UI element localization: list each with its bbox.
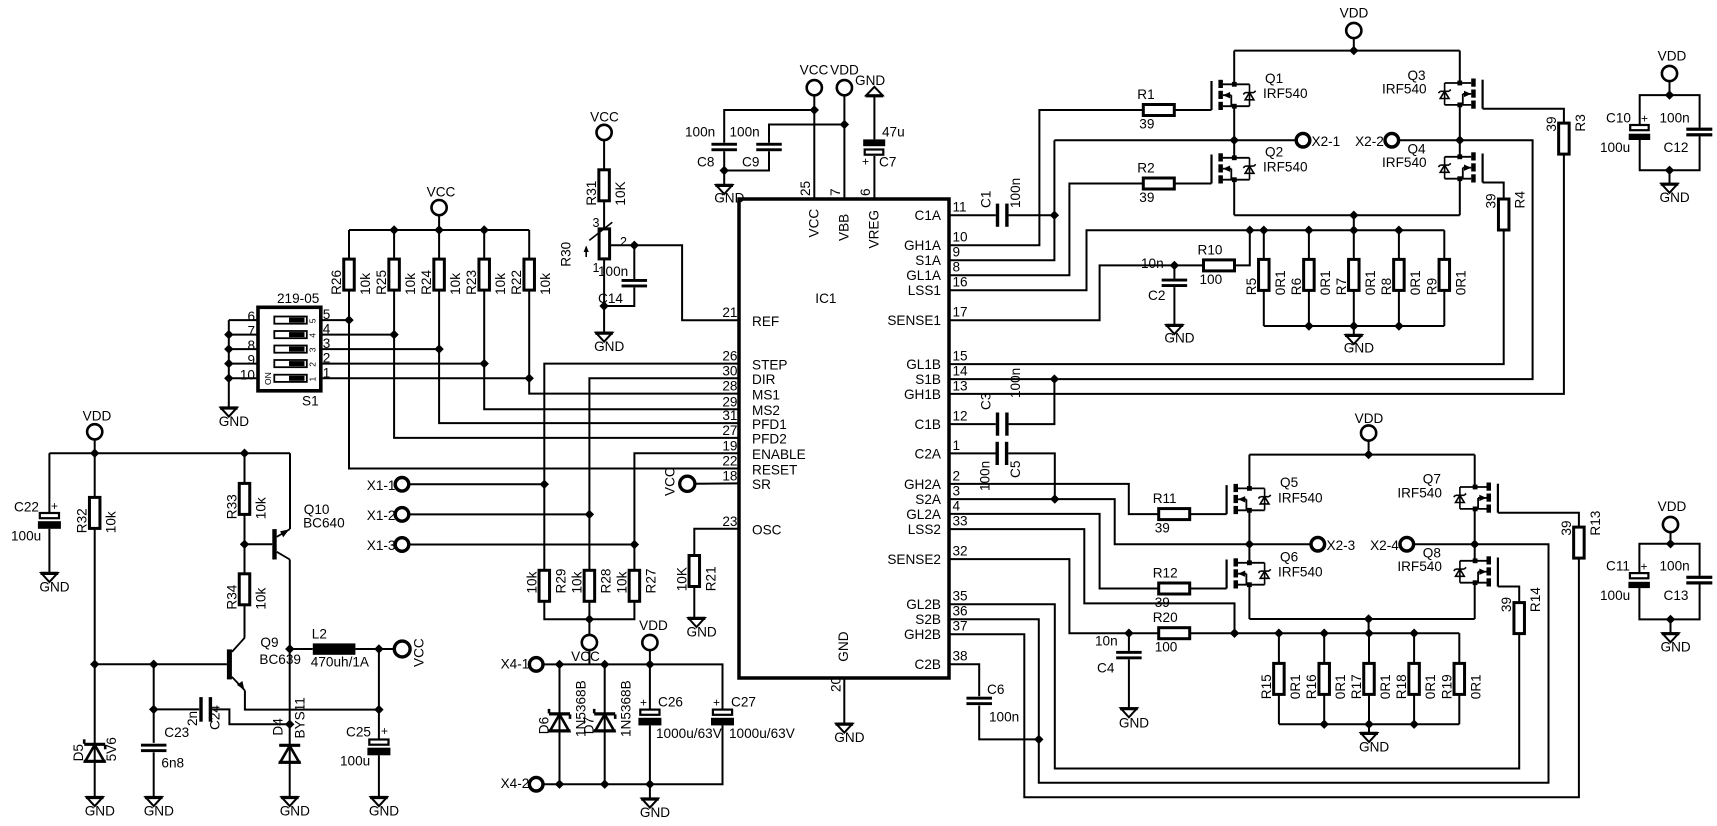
svg-text:GND: GND bbox=[1661, 639, 1691, 654]
svg-text:X1-2: X1-2 bbox=[367, 508, 396, 523]
svg-text:R31: R31 bbox=[584, 181, 599, 206]
svg-text:VDD: VDD bbox=[1340, 6, 1369, 21]
wire Q5 Q6 trunk bbox=[1248, 455, 1250, 489]
resistor R34 10k bbox=[239, 574, 250, 605]
resistor R16 0R1 bbox=[1319, 663, 1330, 694]
svg-text:R33: R33 bbox=[225, 494, 240, 519]
svg-text:1: 1 bbox=[308, 377, 318, 382]
svg-text:R23: R23 bbox=[464, 270, 479, 295]
capacitor C7 47u electrolytic bbox=[862, 125, 905, 170]
svg-text:GL2B: GL2B bbox=[906, 597, 941, 612]
svg-text:C1B: C1B bbox=[915, 417, 941, 432]
svg-text:GL2A: GL2A bbox=[906, 507, 942, 522]
svg-text:X4-1: X4-1 bbox=[501, 656, 530, 671]
IC1 right pin names and numbers bbox=[887, 200, 968, 673]
wire S1B to X2-2 riser bbox=[949, 140, 1533, 384]
resistor R18 0R1 bbox=[1409, 663, 1420, 694]
svg-text:10K: 10K bbox=[613, 181, 628, 205]
wire S1 pin2 R23 to MS2 bbox=[321, 359, 739, 409]
wire Q9 emitter to cap row bbox=[245, 691, 379, 710]
svg-text:+: + bbox=[381, 724, 388, 738]
svg-text:R26: R26 bbox=[329, 270, 344, 295]
ground GND below R30 bbox=[596, 333, 612, 342]
wire GH2A to R11 to Q5 gate bbox=[949, 484, 1159, 514]
wire sense bottom rail A bbox=[1264, 321, 1445, 335]
wire C9 top to VDD rail bbox=[769, 125, 844, 143]
ground GND below C26 bbox=[642, 799, 658, 808]
resistor R3 39 bbox=[1559, 123, 1570, 154]
resistor R4 39 bbox=[1498, 199, 1509, 230]
svg-text:100n: 100n bbox=[685, 125, 715, 140]
svg-text:+: + bbox=[51, 499, 58, 513]
svg-text:R15: R15 bbox=[1259, 674, 1274, 699]
wire Q7 gate to R13 to GH2B bus bbox=[1498, 513, 1579, 527]
svg-text:R17: R17 bbox=[1349, 674, 1364, 699]
svg-text:2: 2 bbox=[308, 362, 318, 367]
wire C10 C12 frame top bbox=[1640, 90, 1700, 127]
svg-text:100n: 100n bbox=[1660, 110, 1690, 125]
svg-text:C2A: C2A bbox=[915, 446, 942, 461]
svg-text:S1A: S1A bbox=[915, 253, 942, 268]
resistor R20 100 bbox=[1159, 628, 1190, 639]
svg-text:2: 2 bbox=[620, 235, 627, 249]
svg-text:7: 7 bbox=[247, 324, 255, 339]
svg-text:GND: GND bbox=[39, 580, 69, 595]
diode D5 5V6 zener bbox=[71, 737, 119, 797]
svg-text:GND: GND bbox=[1344, 341, 1374, 356]
svg-text:10k: 10k bbox=[614, 571, 629, 593]
resistor R17 0R1 bbox=[1364, 663, 1375, 694]
svg-text:100u: 100u bbox=[340, 754, 370, 769]
svg-text:3: 3 bbox=[308, 347, 318, 352]
svg-text:10k: 10k bbox=[524, 571, 539, 593]
wire C25 riser bbox=[374, 649, 383, 740]
svg-text:R13: R13 bbox=[1588, 511, 1603, 536]
svg-text:R1: R1 bbox=[1137, 87, 1154, 102]
wire R30 bottom leg to GND bbox=[603, 259, 605, 333]
wire SENSE2 to R20 row bbox=[949, 559, 1129, 633]
svg-text:6: 6 bbox=[247, 309, 255, 324]
capacitor C25 100u electrolytic bbox=[340, 724, 390, 797]
ground GND below IC bbox=[836, 724, 852, 733]
svg-text:BC639: BC639 bbox=[259, 652, 301, 667]
wire S1 pin5 R26 to RESET bbox=[321, 315, 739, 468]
svg-text:36: 36 bbox=[953, 604, 968, 619]
svg-text:VCC: VCC bbox=[411, 638, 426, 667]
wire S1 left pins to ground bus bbox=[224, 320, 258, 408]
power VDD symbol left bbox=[83, 408, 112, 453]
svg-text:REF: REF bbox=[752, 314, 779, 329]
svg-text:R22: R22 bbox=[509, 270, 524, 295]
resistor R27 10k bbox=[629, 570, 640, 601]
ground GND right top block bbox=[1661, 184, 1677, 193]
svg-text:10: 10 bbox=[240, 367, 256, 382]
svg-text:100u: 100u bbox=[11, 529, 41, 544]
svg-text:GND: GND bbox=[280, 804, 310, 819]
svg-text:VDD: VDD bbox=[1355, 411, 1384, 426]
wire sense resistor legs B bbox=[1279, 633, 1459, 724]
wire R29 R28 R27 bottoms to VCC bbox=[544, 601, 634, 635]
resistor R31 10K bbox=[599, 170, 610, 201]
svg-text:39: 39 bbox=[1484, 193, 1499, 208]
wire sense bottom rail B bbox=[1279, 720, 1459, 734]
resistor R13 39 bbox=[1574, 527, 1585, 558]
svg-text:0R1: 0R1 bbox=[1273, 270, 1288, 295]
resistor R10 100 bbox=[1204, 260, 1235, 271]
svg-text:VDD: VDD bbox=[1658, 499, 1687, 514]
ground GND right bottom block bbox=[1662, 633, 1678, 642]
svg-text:GH2B: GH2B bbox=[904, 627, 941, 642]
svg-text:MS1: MS1 bbox=[752, 387, 780, 402]
capacitor C13 100n bbox=[1660, 558, 1713, 603]
svg-text:GND: GND bbox=[855, 73, 885, 88]
capacitor C26 1000u/63V electrolytic bbox=[638, 664, 721, 784]
svg-text:100n: 100n bbox=[730, 125, 760, 140]
switch S1 DIP 219-05 bbox=[240, 291, 331, 409]
svg-text:R3: R3 bbox=[1573, 114, 1588, 131]
svg-text:Q5: Q5 bbox=[1280, 475, 1298, 490]
svg-text:X1-3: X1-3 bbox=[367, 538, 396, 553]
svg-text:R8: R8 bbox=[1379, 278, 1394, 295]
wire S1 pin4 R25 to PFD2 bbox=[321, 330, 739, 438]
wire REF to R30 wiper bbox=[634, 245, 739, 320]
transistor Q4 IRF540 bbox=[1382, 142, 1483, 183]
svg-text:5V6: 5V6 bbox=[104, 737, 119, 761]
node half-bridge B output bbox=[1245, 540, 1254, 549]
ground GND below R21 bbox=[688, 618, 704, 627]
wire VDD rail top of Q5 Q7 bbox=[1249, 450, 1474, 459]
resistor R12 39 bbox=[1159, 583, 1190, 594]
power VCC symbol above IC bbox=[800, 63, 829, 96]
capacitor C14 100n bbox=[598, 264, 647, 306]
wire C14 top bbox=[633, 245, 635, 279]
svg-text:1000u/63V: 1000u/63V bbox=[656, 726, 722, 741]
svg-text:16: 16 bbox=[953, 275, 968, 290]
svg-text:12: 12 bbox=[953, 409, 968, 424]
svg-text:0R1: 0R1 bbox=[1363, 270, 1378, 295]
IC1 bottom pin GND 20 bbox=[829, 631, 852, 692]
svg-text:C3: C3 bbox=[978, 393, 993, 410]
svg-text:0R1: 0R1 bbox=[1288, 674, 1303, 699]
resistor R8 0R1 bbox=[1394, 259, 1405, 290]
ground GND below C8 bbox=[716, 185, 732, 194]
wire LSS2 jog to sense rail B bbox=[949, 529, 1239, 638]
svg-text:L2: L2 bbox=[312, 627, 327, 642]
wire C14 bottom to R30 leg bbox=[599, 288, 634, 311]
svg-text:R24: R24 bbox=[419, 270, 434, 295]
power VCC symbol above resistor bank bbox=[427, 185, 456, 231]
svg-text:C1A: C1A bbox=[915, 208, 942, 223]
svg-text:IRF540: IRF540 bbox=[1278, 565, 1323, 580]
svg-text:ENABLE: ENABLE bbox=[752, 447, 806, 462]
svg-text:5: 5 bbox=[308, 318, 318, 323]
ground GND below D5 bbox=[87, 797, 103, 806]
svg-text:100: 100 bbox=[1155, 640, 1178, 655]
svg-text:47u: 47u bbox=[882, 125, 905, 140]
svg-text:10k: 10k bbox=[254, 587, 269, 609]
svg-text:4: 4 bbox=[308, 333, 318, 338]
ground GND below S1 bbox=[221, 408, 237, 417]
ground GND sense B bbox=[1361, 733, 1377, 742]
diode D7 1N5368B zener bbox=[582, 664, 634, 784]
svg-text:3: 3 bbox=[593, 216, 600, 230]
ground GND below C25 bbox=[371, 797, 387, 806]
transistor Q3 IRF540 bbox=[1382, 68, 1483, 109]
svg-text:11: 11 bbox=[953, 200, 967, 215]
svg-text:VCC: VCC bbox=[806, 209, 821, 238]
svg-text:GL1B: GL1B bbox=[906, 357, 941, 372]
svg-text:1: 1 bbox=[953, 438, 961, 453]
svg-text:10K: 10K bbox=[674, 567, 689, 591]
wire C26 GND stub bbox=[649, 784, 651, 798]
connector X1-3 bbox=[367, 538, 639, 553]
svg-text:0R1: 0R1 bbox=[1468, 674, 1483, 699]
svg-text:R9: R9 bbox=[1424, 278, 1439, 295]
IC1 left pin names and numbers bbox=[722, 305, 805, 537]
svg-text:C2B: C2B bbox=[915, 657, 941, 672]
resistor R7 0R1 bbox=[1349, 259, 1360, 290]
svg-text:VREG: VREG bbox=[867, 210, 882, 249]
capacitor C3 100n bootstrap B bbox=[978, 368, 1022, 436]
svg-text:GND: GND bbox=[144, 804, 174, 819]
svg-text:29: 29 bbox=[722, 394, 737, 409]
wire C11 C13 frame bottom bbox=[1639, 585, 1699, 634]
ground GND below C22 bbox=[41, 573, 57, 582]
svg-text:MS2: MS2 bbox=[752, 403, 780, 418]
wire pin 20 to GND bbox=[843, 678, 845, 724]
svg-text:470uh/1A: 470uh/1A bbox=[311, 655, 370, 670]
svg-text:GND: GND bbox=[1164, 331, 1194, 346]
svg-text:10k: 10k bbox=[254, 497, 269, 519]
resistor R5 0R1 bbox=[1259, 259, 1270, 290]
capacitor C9 100n bbox=[730, 125, 782, 170]
wire R24 top leg bbox=[438, 230, 440, 259]
svg-text:9: 9 bbox=[953, 245, 961, 260]
resistor R29 10k bbox=[539, 570, 550, 601]
resistor R21 10K at OSC bbox=[674, 529, 739, 618]
svg-text:100n: 100n bbox=[1008, 368, 1023, 398]
resistor R24 10k bbox=[434, 259, 445, 290]
svg-text:VCC: VCC bbox=[800, 63, 829, 78]
svg-text:DIR: DIR bbox=[752, 372, 776, 387]
svg-text:0R1: 0R1 bbox=[1378, 674, 1393, 699]
connector X2-4 bbox=[1370, 537, 1479, 553]
capacitor C4 10n bbox=[1095, 633, 1142, 708]
svg-text:C13: C13 bbox=[1664, 588, 1689, 603]
svg-text:C2: C2 bbox=[1148, 288, 1165, 303]
svg-text:8: 8 bbox=[247, 338, 255, 353]
svg-text:S1B: S1B bbox=[915, 372, 941, 387]
inductor L2 470uh/1A bbox=[311, 627, 370, 670]
svg-text:VBB: VBB bbox=[836, 214, 851, 241]
svg-text:R34: R34 bbox=[225, 584, 240, 609]
svg-text:X4-2: X4-2 bbox=[501, 776, 530, 791]
svg-text:PFD2: PFD2 bbox=[752, 432, 787, 447]
svg-text:C4: C4 bbox=[1097, 661, 1115, 676]
svg-text:C23: C23 bbox=[164, 725, 189, 740]
wire C23 leg and row bbox=[149, 664, 199, 743]
svg-text:IRF540: IRF540 bbox=[1397, 485, 1442, 500]
svg-text:Q9: Q9 bbox=[260, 635, 278, 650]
svg-text:C25: C25 bbox=[346, 725, 371, 740]
svg-text:IRF540: IRF540 bbox=[1397, 559, 1442, 574]
resistor R22 10k bbox=[524, 259, 535, 290]
svg-text:22: 22 bbox=[722, 454, 737, 469]
svg-text:R25: R25 bbox=[374, 270, 389, 295]
wire X1-2 riser to DIR bbox=[589, 378, 739, 570]
svg-text:R2: R2 bbox=[1137, 161, 1154, 176]
svg-text:GND: GND bbox=[836, 631, 851, 661]
svg-text:+: + bbox=[1641, 111, 1648, 125]
svg-text:R27: R27 bbox=[643, 569, 658, 594]
wire VDD rail left bbox=[49, 449, 290, 458]
connector X4-2 bbox=[501, 776, 543, 791]
connector X1-1 bbox=[367, 478, 549, 493]
wire SENSE1 to R10 to rail bbox=[949, 230, 1250, 320]
svg-text:C5: C5 bbox=[1008, 461, 1023, 478]
svg-text:C12: C12 bbox=[1664, 140, 1689, 155]
svg-text:C1: C1 bbox=[978, 191, 993, 208]
power VDD symbol above C26 bbox=[639, 618, 668, 664]
svg-text:39: 39 bbox=[1559, 520, 1574, 535]
svg-text:VDD: VDD bbox=[639, 618, 668, 633]
svg-text:0R1: 0R1 bbox=[1318, 270, 1333, 295]
wire sense rail B bbox=[1124, 629, 1459, 638]
svg-text:R16: R16 bbox=[1304, 674, 1319, 699]
svg-text:D4: D4 bbox=[271, 718, 286, 736]
svg-text:10k: 10k bbox=[104, 511, 119, 533]
diode D6 1N5368B zener bbox=[537, 664, 589, 784]
wire base row to Q9 bbox=[95, 660, 227, 669]
resistor R32 10k bbox=[75, 453, 119, 533]
svg-text:R7: R7 bbox=[1334, 278, 1349, 295]
svg-text:100n: 100n bbox=[989, 710, 1019, 725]
svg-text:GND: GND bbox=[1359, 740, 1389, 755]
wire R22 top leg bbox=[528, 230, 530, 259]
svg-text:STEP: STEP bbox=[752, 357, 788, 372]
svg-text:D7: D7 bbox=[582, 717, 597, 734]
svg-text:21: 21 bbox=[722, 305, 737, 320]
wire Q1 Q2 trunk bbox=[1233, 51, 1235, 85]
svg-text:17: 17 bbox=[953, 305, 968, 320]
svg-text:VCC: VCC bbox=[427, 185, 456, 200]
svg-text:35: 35 bbox=[953, 589, 968, 604]
wire C2A pin 1 through C5 to S2A junction bbox=[949, 453, 1060, 503]
diode D4 BYS11 bbox=[271, 697, 308, 797]
svg-text:C11: C11 bbox=[1606, 558, 1630, 573]
svg-text:IRF540: IRF540 bbox=[1263, 160, 1308, 175]
svg-text:19: 19 bbox=[722, 438, 737, 453]
svg-text:6n8: 6n8 bbox=[161, 756, 184, 771]
wire sense rail A bbox=[1245, 226, 1444, 235]
svg-text:10k: 10k bbox=[358, 273, 373, 295]
svg-text:C10: C10 bbox=[1606, 110, 1631, 125]
wire sense resistor legs A bbox=[1264, 230, 1445, 326]
wire Q3 gate to R3 to GH1B bbox=[1483, 109, 1564, 123]
wire R30 wiper to junction bbox=[610, 241, 639, 250]
svg-text:S2A: S2A bbox=[915, 492, 942, 507]
svg-text:X2-3: X2-3 bbox=[1327, 538, 1356, 553]
wire C11 C13 frame top bbox=[1639, 539, 1699, 576]
capacitor C27 1000u/63V electrolytic bbox=[711, 695, 795, 742]
wire S2A to output node B bbox=[949, 499, 1249, 544]
wire VREG pin 6 to C7 to GND bbox=[873, 96, 875, 140]
capacitor C11 100u electrolytic bbox=[1600, 558, 1650, 603]
svg-text:10n: 10n bbox=[1095, 634, 1118, 649]
svg-text:13: 13 bbox=[953, 378, 968, 393]
svg-text:R4: R4 bbox=[1513, 191, 1528, 209]
capacitor C24 2n bbox=[185, 697, 223, 730]
svg-text:10k: 10k bbox=[538, 273, 553, 295]
wire L2 legs bbox=[290, 644, 395, 653]
svg-text:100u: 100u bbox=[1600, 588, 1630, 603]
svg-text:LSS2: LSS2 bbox=[908, 522, 941, 537]
svg-text:X1-1: X1-1 bbox=[367, 478, 396, 493]
wire C24 to D4 jog bbox=[212, 709, 290, 724]
svg-text:D6: D6 bbox=[537, 717, 552, 734]
svg-text:R6: R6 bbox=[1289, 278, 1304, 295]
resistor R23 10k bbox=[479, 259, 490, 290]
wire D4 vertical bbox=[285, 649, 294, 745]
svg-text:+: + bbox=[862, 155, 869, 169]
svg-text:18: 18 bbox=[722, 468, 737, 483]
svg-text:VDD: VDD bbox=[1658, 49, 1687, 64]
resistor R33 10k bbox=[225, 453, 269, 519]
svg-text:100n: 100n bbox=[978, 461, 993, 491]
svg-text:33: 33 bbox=[953, 514, 968, 529]
svg-text:D5: D5 bbox=[71, 744, 86, 761]
resistor R9 0R1 bbox=[1439, 259, 1450, 290]
svg-text:R29: R29 bbox=[553, 569, 568, 594]
wire R23 top leg bbox=[483, 230, 485, 259]
svg-text:R12: R12 bbox=[1153, 566, 1178, 581]
svg-text:39: 39 bbox=[1544, 116, 1559, 131]
svg-text:2n: 2n bbox=[185, 711, 200, 726]
svg-text:32: 32 bbox=[953, 544, 968, 559]
svg-text:GH1A: GH1A bbox=[904, 238, 942, 253]
svg-text:100: 100 bbox=[1200, 272, 1223, 287]
connector X4-1 bbox=[501, 656, 543, 671]
svg-text:IC1: IC1 bbox=[815, 291, 836, 306]
svg-text:R28: R28 bbox=[598, 569, 613, 594]
svg-text:R19: R19 bbox=[1439, 674, 1454, 699]
resistor R15 0R1 bbox=[1274, 663, 1285, 694]
svg-text:+: + bbox=[1641, 559, 1648, 573]
svg-text:R10: R10 bbox=[1198, 242, 1223, 257]
svg-text:IRF540: IRF540 bbox=[1263, 86, 1308, 101]
svg-text:27: 27 bbox=[722, 423, 737, 438]
power VCC connector right of L2 bbox=[394, 638, 426, 667]
svg-text:C26: C26 bbox=[658, 695, 683, 710]
svg-text:10n: 10n bbox=[1141, 256, 1164, 271]
svg-text:BC640: BC640 bbox=[303, 515, 345, 530]
wire R32 leg to base row bbox=[90, 527, 99, 669]
wire C1B pin 12 through C3 to S1B bbox=[949, 423, 996, 425]
svg-text:GND: GND bbox=[834, 730, 864, 745]
svg-text:X2-4: X2-4 bbox=[1370, 538, 1399, 553]
svg-text:100n: 100n bbox=[1660, 558, 1690, 573]
transistor Q10 BC640 bbox=[245, 502, 346, 560]
resistor R19 0R1 bbox=[1454, 663, 1465, 694]
svg-text:IRF540: IRF540 bbox=[1382, 155, 1427, 170]
svg-text:+: + bbox=[713, 696, 720, 710]
svg-text:100n: 100n bbox=[1008, 178, 1023, 208]
wire VDD rail top of Q1 Q3 bbox=[1234, 46, 1460, 55]
svg-text:100n: 100n bbox=[598, 264, 628, 279]
ground GND below C2 bbox=[1166, 325, 1182, 334]
svg-text:C6: C6 bbox=[987, 682, 1004, 697]
wire R31 to R30 bbox=[603, 201, 605, 229]
